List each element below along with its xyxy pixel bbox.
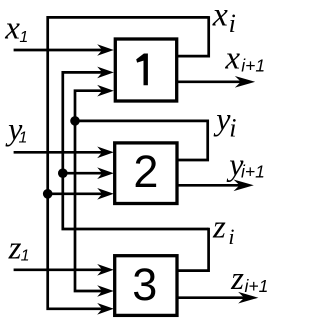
- svg-text:i: i: [229, 114, 236, 143]
- svg-text:z: z: [230, 261, 244, 297]
- junction yi bus: [70, 116, 80, 126]
- svg-text:2: 2: [133, 146, 158, 197]
- wire x1 input: [14, 49, 103, 52]
- svg-text:z: z: [212, 209, 226, 245]
- wire bus xi vertical: [48, 17, 209, 308]
- svg-text:x: x: [224, 41, 240, 77]
- arrowhead y1 into U2: [97, 147, 114, 159]
- arrowhead zi into U1: [97, 67, 114, 79]
- wire y1 input: [14, 151, 103, 154]
- wire xi out of U1: [177, 16, 209, 56]
- wire U2 input xi branch: [48, 192, 103, 195]
- svg-text:x: x: [4, 10, 20, 46]
- svg-text:i+1: i+1: [245, 276, 269, 296]
- svg-text:3: 3: [132, 259, 157, 310]
- junction zi bus: [58, 168, 68, 178]
- arrowhead y(i+1): [234, 180, 254, 192]
- block U2: [115, 143, 177, 204]
- label 1: [136, 54, 148, 86]
- wire bus yi vertical: [75, 91, 103, 291]
- arrowhead x1 into U1: [97, 44, 114, 56]
- arrowhead yi into U1: [97, 85, 114, 97]
- arrowhead yi into U3: [97, 285, 114, 297]
- arrowhead x(i+1): [235, 76, 255, 88]
- svg-text:i: i: [229, 9, 236, 38]
- arrowhead xi into U3: [97, 303, 114, 315]
- wire z(i+1) output: [177, 296, 247, 299]
- wire zi out of U3: [177, 228, 209, 271]
- wire x(i+1) output: [177, 80, 245, 83]
- block U1: [115, 39, 176, 101]
- svg-text:i+1: i+1: [241, 161, 265, 181]
- svg-text:x: x: [212, 0, 228, 34]
- svg-text:i: i: [228, 224, 234, 249]
- block U3: [115, 256, 177, 316]
- arrowhead z1 into U3: [97, 264, 114, 276]
- svg-text:1: 1: [19, 29, 28, 46]
- wire bus zi vertical: [63, 72, 209, 229]
- svg-text:i+1: i+1: [241, 56, 265, 76]
- junction xi bus: [43, 189, 53, 199]
- wire U2 input zi branch: [63, 172, 103, 175]
- arrowhead z(i+1): [238, 292, 258, 304]
- arrowhead zi into U2: [97, 167, 114, 179]
- arrowhead xi into U2: [97, 188, 114, 200]
- wire yi out of U2: [74, 121, 208, 160]
- svg-text:z: z: [8, 231, 22, 267]
- wire y(i+1) output: [177, 184, 243, 187]
- svg-text:1: 1: [21, 247, 30, 264]
- wire z1 input: [14, 268, 103, 271]
- svg-text:1: 1: [19, 129, 28, 146]
